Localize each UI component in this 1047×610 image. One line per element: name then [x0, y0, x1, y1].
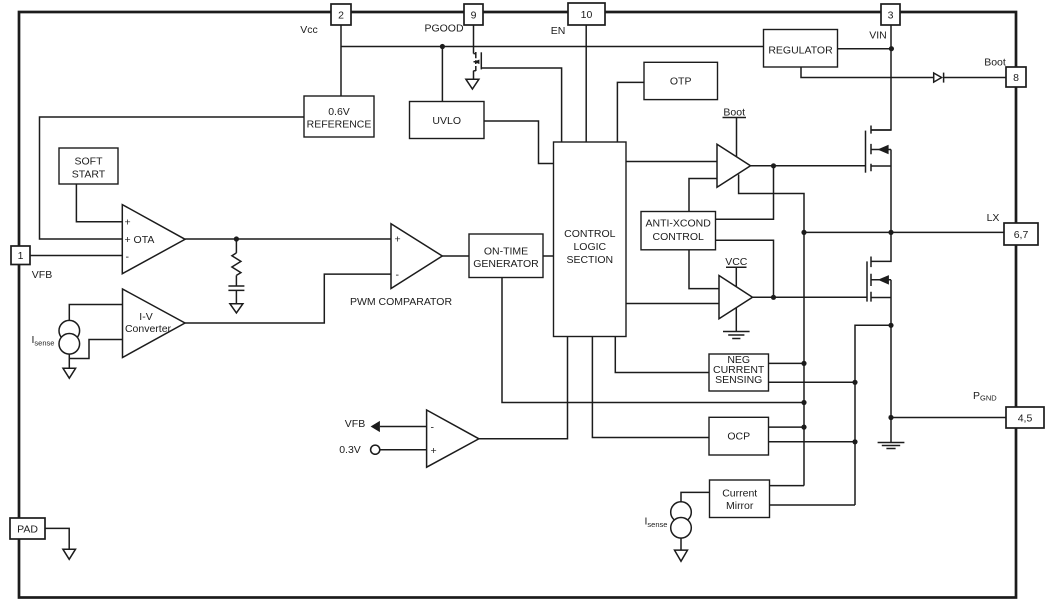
wire: junction down to resistor: [235, 239, 237, 253]
box: ON-TIME GENERATOR: [469, 234, 543, 278]
wire: PGOOD transistor source to ground: [473, 71, 475, 80]
wire: VFB arrow to comparator - input: [380, 426, 427, 428]
node: compensation junction: [234, 236, 239, 241]
svg-text:PAD: PAD: [17, 524, 38, 536]
op-amp min comparator: [427, 410, 479, 467]
box: REGULATOR: [764, 30, 838, 68]
wire: anti-xcond right upper to high-side gate node: [716, 166, 774, 219]
node: LX left junction: [801, 230, 806, 235]
node: rail/UVLO junction: [440, 44, 445, 49]
wire: soft start to OTA + input: [76, 184, 122, 222]
wire: 0.3V to comparator + input: [380, 449, 427, 451]
wire: PWM comparator output to on-time generator: [442, 255, 469, 257]
svg-text:Vcc: Vcc: [300, 24, 318, 36]
pin 8: [1006, 67, 1026, 87]
wire: control logic down to NEG current sensing: [615, 337, 709, 373]
node: source/current-sense junction: [888, 323, 893, 328]
op-amp OTA: [122, 205, 185, 274]
diode bootstrap: [934, 73, 944, 83]
wire: high-side source down to LX: [890, 166, 892, 232]
wire: I-V output up to PWM comparator - input: [185, 274, 391, 323]
box: 0.6V REFERENCE: [304, 96, 374, 137]
svg-text:UVLO: UVLO: [432, 115, 461, 127]
wire: LX rail to pin 6,7: [804, 231, 1004, 233]
svg-text:9: 9: [471, 9, 477, 21]
wire: low-side driver ground stub: [735, 308, 737, 331]
wire: current mirror lower output to sense bus: [770, 504, 856, 506]
svg-text:REFERENCE: REFERENCE: [307, 119, 372, 131]
svg-text:I-V: I-V: [139, 311, 152, 323]
node: [801, 361, 806, 366]
wire: diode to Boot pin 8: [944, 77, 1006, 79]
svg-text:CONTROL: CONTROL: [564, 228, 615, 240]
wire: resistor to capacitor: [235, 275, 237, 286]
svg-text:VCC: VCC: [725, 256, 748, 268]
wire: right current source to ground: [680, 538, 682, 550]
wire: on-time generator to control logic: [543, 255, 554, 257]
wire: pin2 Vcc down to 0.6V reference: [340, 25, 342, 96]
svg-text:OCP: OCP: [727, 431, 750, 443]
ground earth at PGND: [878, 443, 905, 449]
wire: OCP lower output: [769, 441, 856, 443]
terminal 0.3V circle: [371, 445, 380, 454]
svg-text:START: START: [72, 169, 106, 181]
node: [852, 439, 857, 444]
wire: regulator output to VIN line: [838, 48, 892, 50]
svg-text:Current: Current: [722, 488, 757, 500]
box: SOFT START: [59, 148, 118, 184]
wire: anti-xcond bottom to low-side driver: [689, 250, 719, 289]
label Boot above high-side driver: [723, 107, 747, 119]
wire: pin3 VIN down to high-side FET drain: [871, 25, 891, 130]
node: LX/source junction: [888, 230, 893, 235]
wire: current mirror upper output to bus: [770, 485, 805, 487]
box: UVLO: [410, 102, 485, 139]
label VCC above low-side driver: [725, 256, 748, 268]
svg-text:10: 10: [581, 9, 593, 21]
pin 3: [881, 4, 900, 25]
box: Current Mirror: [710, 480, 770, 518]
wire: LX down to low-side drain: [871, 232, 891, 261]
svg-text:SECTION: SECTION: [566, 254, 613, 266]
wire: OTP to control logic: [617, 82, 643, 142]
svg-text:SOFT: SOFT: [75, 156, 104, 168]
node: low-side gate junction: [771, 295, 776, 300]
wire: current source top to I-V converter upper input: [69, 305, 122, 321]
wire: NEG current sensing lower output: [769, 381, 856, 383]
wire: control logic down to OCP: [592, 337, 709, 438]
wire: OTA output to PWM comparator + input: [185, 238, 391, 240]
svg-text:-: -: [431, 422, 435, 434]
pin 9: [464, 4, 483, 25]
op-amp I-V converter: [123, 289, 186, 358]
node: PGND junction: [888, 415, 893, 420]
pin 6,7: [1004, 223, 1038, 245]
transistor low-side NMOS: [867, 257, 891, 302]
node: high-side gate junction: [771, 163, 776, 168]
svg-text:PGOOD: PGOOD: [424, 23, 464, 35]
wire: anti-xcond top to high-side driver: [689, 179, 717, 212]
svg-text:LOGIC: LOGIC: [573, 241, 606, 253]
ground earth under low-side driver: [723, 332, 750, 339]
svg-text:OTP: OTP: [670, 76, 692, 88]
wire: NEG current sensing upper output: [769, 362, 805, 364]
svg-text:+: +: [395, 234, 401, 246]
svg-text:-: -: [396, 269, 400, 281]
wire: UVLO output to control logic: [484, 121, 554, 164]
pin 2: [331, 4, 351, 25]
wire: low-side driver output to gate: [753, 296, 868, 298]
wire: PGND node to pin 4,5: [891, 417, 1006, 419]
box: CONTROL LOGIC SECTION: [554, 142, 627, 337]
pin 1: [11, 246, 30, 265]
box: OCP: [709, 417, 769, 455]
amplifier low-side driver: [719, 276, 753, 319]
svg-text:2: 2: [338, 9, 344, 21]
svg-text:REGULATOR: REGULATOR: [768, 44, 833, 56]
wire: PGOOD transistor gate to control logic: [481, 68, 561, 142]
svg-text:VIN: VIN: [869, 30, 887, 42]
svg-text:VFB: VFB: [345, 418, 365, 430]
svg-text:ON-TIME: ON-TIME: [484, 246, 528, 258]
svg-text:VFB: VFB: [32, 269, 52, 281]
wire: high-side driver output to gate: [751, 165, 866, 167]
svg-text:GENERATOR: GENERATOR: [473, 258, 539, 270]
current source Isense (right): [671, 502, 692, 538]
wire: Vcc rail to regulator: [341, 46, 764, 48]
wire: source sense elbow to sense bus: [855, 325, 891, 505]
svg-text:Converter: Converter: [125, 323, 172, 335]
ground arrow under Isense left: [63, 368, 76, 378]
node: [852, 380, 857, 385]
transistor PGOOD pull-down (mirrored NMOS): [474, 52, 482, 71]
ground arrow under Isense right: [675, 550, 688, 561]
wire: capacitor to ground: [235, 290, 237, 303]
svg-text:CONTROL: CONTROL: [653, 231, 704, 243]
svg-text:0.3V: 0.3V: [339, 444, 361, 456]
wire: driver low rail tap to LX rail: [739, 175, 804, 486]
wire: EN pin10 down to control logic: [585, 25, 587, 142]
svg-text:6,7: 6,7: [1014, 229, 1029, 241]
wire: VCC stub into driver: [735, 267, 737, 287]
svg-text:+: +: [125, 217, 131, 229]
wire: OCP upper output: [769, 426, 805, 428]
svg-text:3: 3: [888, 9, 894, 21]
current source Isense (left): [59, 320, 80, 354]
svg-text:Boot: Boot: [723, 107, 745, 119]
wire: control logic to high-side driver input: [626, 161, 717, 163]
svg-text:Boot: Boot: [984, 57, 1006, 69]
ground arrow under compensation: [230, 304, 243, 313]
wire: current mirror input from Isense: [681, 492, 710, 501]
arrow VFB input: [371, 421, 380, 432]
pin 4,5: [1006, 407, 1044, 428]
svg-text:SENSING: SENSING: [715, 374, 762, 386]
amplifier high-side driver: [717, 144, 751, 187]
capacitor compensation: [228, 286, 244, 290]
wire: on-time generator bottom feedback line: [502, 278, 804, 403]
wire: pin9 down to PGOOD transistor drain: [473, 25, 475, 54]
wire: regulator bottom to bootstrap diode: [801, 67, 934, 78]
svg-text:ANTI-XCOND: ANTI-XCOND: [646, 218, 712, 230]
resistor compensation: [232, 253, 241, 276]
wire: PAD to ground: [45, 528, 69, 549]
box: NEG CURRENT SENSING: [709, 354, 769, 391]
svg-text:8: 8: [1013, 72, 1019, 84]
wire: Boot stub into driver: [736, 118, 738, 158]
wire: control logic to low-side driver input: [626, 303, 719, 305]
svg-text:Mirror: Mirror: [726, 500, 754, 512]
svg-text:0.6V: 0.6V: [328, 106, 350, 118]
op-amp PWM comparator: [391, 224, 442, 289]
wire: pin1 VFB to OTA - input: [30, 255, 122, 257]
node: regulator/VIN junction: [889, 46, 894, 51]
wire: I-V converter lower input tap: [69, 340, 122, 359]
transistor high-side NMOS: [866, 126, 892, 173]
wire: rail drop to UVLO: [441, 47, 443, 102]
node: [801, 425, 806, 430]
svg-text:PWM COMPARATOR: PWM COMPARATOR: [350, 296, 453, 308]
pin PAD: [10, 518, 45, 539]
pin 10: [568, 3, 605, 25]
svg-text:+: +: [431, 445, 437, 457]
svg-text:4,5: 4,5: [1018, 413, 1033, 425]
wire: low-side source down to PGND ground: [890, 298, 892, 443]
svg-text:1: 1: [18, 250, 24, 262]
svg-text:EN: EN: [551, 25, 566, 37]
wire: current source bottom to ground: [68, 354, 70, 368]
box: ANTI-XCOND CONTROL: [641, 212, 716, 250]
wire: reference to OTA + input: [40, 117, 305, 239]
svg-text:LX: LX: [987, 212, 1000, 224]
svg-text:-: -: [126, 251, 130, 263]
wire: anti-xcond right lower to low-side gate node: [716, 240, 774, 297]
box: OTP: [644, 62, 718, 99]
ground arrow at PAD: [63, 549, 76, 559]
svg-text:+ OTA: + OTA: [125, 234, 155, 246]
wire: control logic down to min-off comparator output: [479, 337, 568, 439]
ground arrow under PGOOD transistor: [466, 79, 479, 89]
node: on-time feedback junction: [801, 400, 806, 405]
